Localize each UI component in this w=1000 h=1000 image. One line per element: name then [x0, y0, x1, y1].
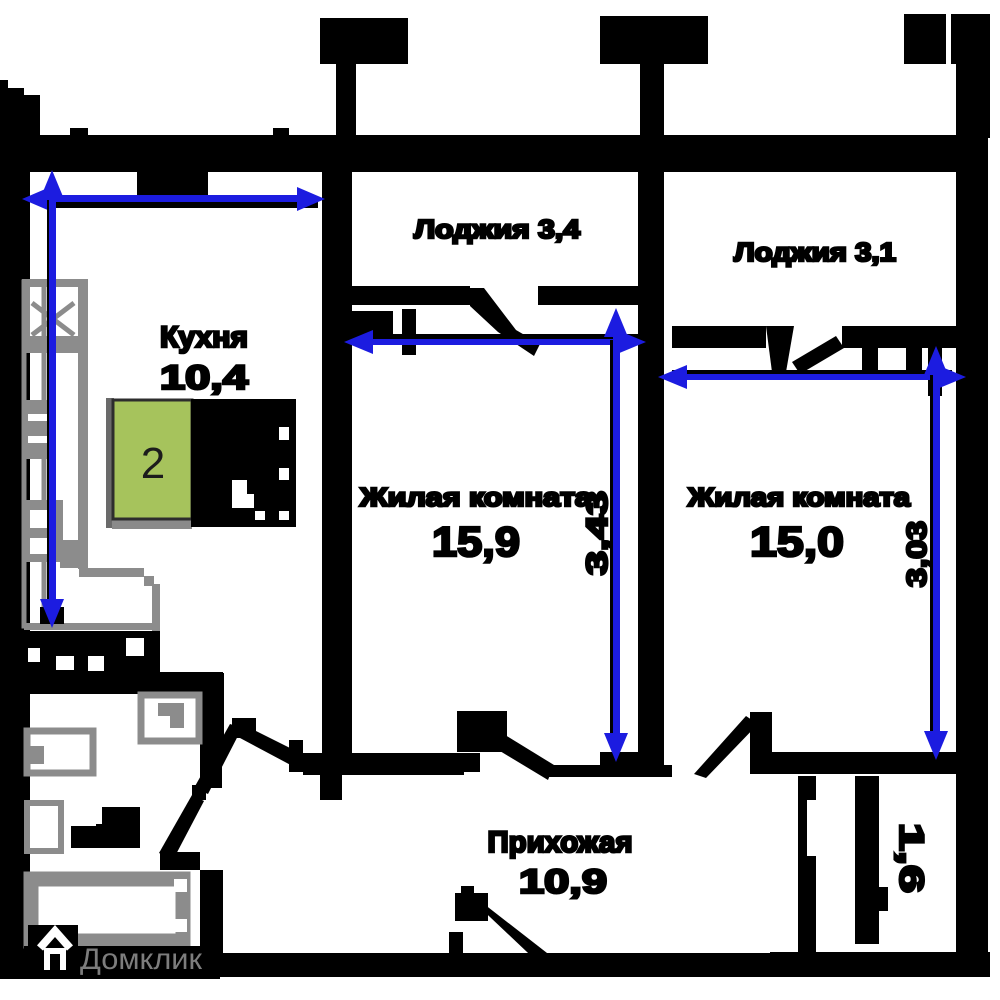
svg-text:15,9: 15,9 [432, 518, 520, 565]
svg-text:10,4: 10,4 [160, 359, 248, 397]
right room bottom wall [600, 712, 958, 778]
right loggia bottom wall [672, 326, 958, 396]
right room label [687, 482, 911, 565]
top outer wall [30, 128, 988, 172]
hallway wall [289, 740, 480, 772]
svg-text:3,03: 3,03 [901, 521, 932, 587]
middle loggia label [414, 214, 581, 244]
bathroom right wall [159, 673, 224, 953]
svg-text:15,0: 15,0 [750, 518, 844, 565]
svg-text:Прихожая: Прихожая [488, 826, 633, 859]
svg-text:3,43: 3,43 [581, 491, 614, 575]
top right corner wall [904, 14, 990, 138]
svg-text:1,6: 1,6 [892, 823, 930, 893]
entrance door [449, 886, 556, 970]
middle room bottom wall [303, 711, 672, 800]
wall kitchen/middle divider [322, 136, 352, 753]
svg-text:Жилая комната: Жилая комната [359, 482, 593, 512]
svg-text:Домклик: Домклик [80, 943, 203, 976]
svg-text:Лоджия 3,4: Лоджия 3,4 [414, 214, 581, 244]
balcony post left [320, 18, 408, 138]
kitchen table black [191, 399, 296, 527]
dim arrow middle room width [344, 330, 646, 354]
wall kitchen/bathroom band [0, 631, 223, 694]
middle room label [359, 482, 593, 565]
right outer wall [956, 136, 988, 977]
dim arrow kitchen height [40, 170, 64, 628]
kitchen window sill line [46, 202, 318, 208]
watermark house icon [24, 925, 220, 979]
wall middle/right divider [638, 136, 664, 752]
middle room vertical dim text [581, 491, 614, 575]
kitchen sink [22, 500, 63, 562]
left outer wall [0, 80, 40, 979]
right loggia dim line [672, 370, 952, 375]
kitchen vent shaft [22, 283, 88, 353]
right room vertical dim text [901, 521, 932, 587]
middle loggia dim line [352, 334, 638, 339]
dim arrow middle room height [604, 308, 628, 762]
closet wall right [855, 776, 888, 944]
svg-text:Жилая комната: Жилая комната [687, 482, 911, 512]
svg-text:10,9: 10,9 [519, 863, 607, 901]
dim arrow right room width [658, 365, 966, 389]
bathroom sink [27, 731, 93, 773]
washing machine [141, 695, 199, 741]
watermark text [80, 943, 203, 976]
balcony post middle [600, 16, 708, 138]
bottom outer wall [0, 952, 990, 977]
toilet [27, 803, 61, 851]
svg-text:Кухня: Кухня [160, 321, 248, 354]
right loggia label [734, 237, 896, 267]
kitchen door arc [194, 718, 306, 794]
kitchen label [160, 321, 248, 397]
green marker [113, 400, 192, 519]
dim arrow kitchen width [22, 187, 325, 211]
kitchen stove [25, 400, 54, 459]
bathtub [31, 872, 200, 943]
kitchen counter left [24, 280, 160, 631]
closet label 1,6 [892, 823, 930, 893]
bathroom door blob [71, 807, 140, 848]
kitchen window pier [137, 171, 208, 202]
closet wall left [798, 776, 816, 952]
hallway label [488, 826, 633, 901]
dim arrow right room height [924, 346, 948, 760]
middle loggia bottom wall [349, 286, 638, 356]
svg-text:2: 2 [141, 439, 165, 488]
svg-text:Лоджия 3,1: Лоджия 3,1 [734, 237, 896, 267]
green marker shadow [106, 398, 192, 529]
